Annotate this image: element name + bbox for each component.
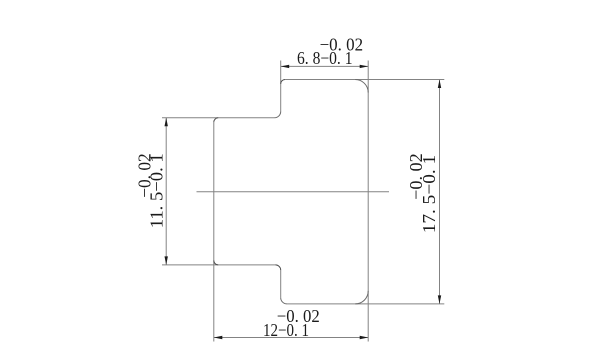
svg-text:17. 5−0. 1: 17. 5−0. 1 (419, 155, 439, 234)
svg-text:11. 5−0. 1: 11. 5−0. 1 (147, 153, 167, 228)
svg-text:6. 8−0. 1: 6. 8−0. 1 (297, 48, 353, 68)
svg-text:12−0. 1: 12−0. 1 (263, 320, 309, 340)
